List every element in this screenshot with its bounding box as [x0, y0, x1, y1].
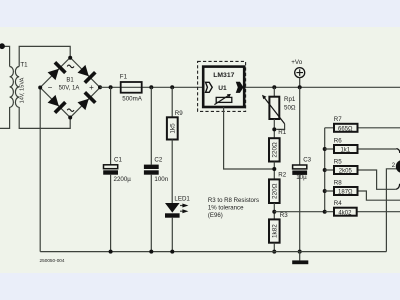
wire resistor bus [324, 128, 326, 212]
node LED ground [170, 250, 174, 254]
svg-text:LED1: LED1 [174, 195, 190, 202]
svg-text:2200µ: 2200µ [114, 176, 132, 183]
svg-text:(E96): (E96) [208, 212, 223, 219]
svg-text:R8: R8 [334, 179, 342, 186]
node R9 rail [170, 85, 174, 89]
resistor R7 [325, 127, 400, 129]
svg-text:+Vo: +Vo [291, 59, 302, 66]
svg-text:665Ω: 665Ω [338, 126, 353, 132]
svg-text:100n: 100n [154, 176, 168, 183]
svg-text:−: − [48, 83, 53, 92]
svg-text:14V, 15VA: 14V, 15VA [19, 77, 25, 103]
fuse F1 [121, 82, 142, 93]
U1 input arrow [206, 82, 213, 92]
node bus R6 [323, 147, 327, 151]
switch contact top [396, 149, 399, 153]
svg-text:250050-004: 250050-004 [40, 258, 65, 263]
node C3 ground [298, 250, 302, 254]
svg-text:U1: U1 [218, 85, 227, 92]
svg-text:R3 to R8 Resistors: R3 to R8 Resistors [208, 197, 259, 204]
node bridge top [68, 56, 72, 60]
svg-text:50V, 1A: 50V, 1A [59, 86, 80, 92]
potentiometer Rp1 [273, 87, 275, 96]
svg-text:R2: R2 [278, 171, 286, 178]
node Rp1 wiper [272, 127, 276, 131]
resistor R3 [269, 219, 280, 242]
svg-text:C2: C2 [154, 156, 162, 163]
U1 adjust icon [216, 97, 232, 102]
svg-text:R6: R6 [334, 137, 342, 144]
svg-text:T1: T1 [20, 62, 28, 69]
node C2 ground [149, 250, 153, 254]
resistor R8 [325, 191, 400, 200]
bridge diode D4 [78, 99, 89, 110]
capacitor C3 [299, 87, 301, 165]
transformer T1 secondary winding [15, 67, 19, 108]
svg-text:1% tolerance: 1% tolerance [208, 205, 244, 212]
svg-text:F1: F1 [120, 74, 128, 81]
node bridge left [38, 86, 42, 90]
node bus R8 [323, 189, 327, 193]
svg-text:B1: B1 [66, 78, 74, 84]
label ~ bottom [67, 109, 74, 112]
switch contact bottom [396, 184, 400, 190]
svg-text:2k05: 2k05 [339, 169, 353, 175]
svg-text:+: + [89, 83, 94, 92]
svg-text:R7: R7 [334, 116, 342, 123]
regulator U1 LM317 dashed outline [198, 61, 246, 111]
node bus R4 [323, 210, 327, 214]
node +Vo rail [298, 85, 302, 89]
terminal +Vo [295, 68, 305, 78]
label ~ top [67, 65, 74, 68]
resistor R9 [171, 87, 173, 117]
wire U1 adj to divider [224, 107, 275, 169]
top band [0, 0, 400, 27]
U1 output arrow [237, 82, 243, 92]
node C1 rail [109, 85, 113, 89]
regulator U1 LM317 body [203, 67, 244, 107]
node Rp1 rail [272, 85, 276, 89]
svg-text:1k5: 1k5 [170, 123, 177, 134]
svg-text:Rp1: Rp1 [284, 96, 296, 103]
svg-text:187Ω: 187Ω [338, 190, 353, 196]
svg-text:R9: R9 [175, 110, 183, 117]
capacitor C2 [150, 87, 152, 164]
wire primary top [0, 46, 10, 66]
svg-text:R3: R3 [280, 212, 288, 219]
wire divider to resistor bus [274, 211, 324, 213]
ground [299, 252, 301, 261]
svg-text:10µ: 10µ [296, 174, 307, 181]
svg-text:1k82: 1k82 [272, 224, 279, 238]
svg-text:220Ω: 220Ω [272, 183, 279, 199]
node R3 ground [272, 250, 276, 254]
node C1 ground [109, 250, 113, 254]
node mains input [0, 43, 5, 49]
wire bridge minus riser [39, 88, 41, 252]
wire positive rail right [244, 86, 400, 88]
bridge diode D1 [48, 69, 59, 80]
svg-text:LM317: LM317 [213, 72, 234, 79]
svg-text:50Ω: 50Ω [284, 104, 296, 111]
resistor R6 [325, 148, 397, 150]
rotary switch pole [396, 160, 400, 173]
bridge diode D3 [48, 95, 59, 106]
LED LED1 [165, 203, 180, 213]
capacitor C1 [110, 87, 112, 164]
svg-text:4k02: 4k02 [338, 210, 352, 216]
wire primary bottom [0, 107, 10, 128]
bridge diode D2 [78, 65, 89, 76]
svg-text:220Ω: 220Ω [272, 142, 279, 158]
node R2 R3 junction [272, 210, 276, 214]
wire secondary bottom to bridge [19, 107, 70, 128]
wire bottom rail [40, 251, 386, 253]
bridge rectifier B1 outline [40, 58, 100, 118]
node R1 R2 junction [272, 167, 276, 171]
wire secondary top to bridge [19, 46, 70, 66]
resistor R2 [269, 179, 280, 203]
node bridge right [98, 85, 102, 89]
svg-text:C1: C1 [114, 156, 122, 163]
resistor R1 [269, 138, 280, 161]
svg-text:R4: R4 [334, 200, 342, 207]
transformer T1 primary winding [10, 67, 14, 108]
resistor R4 [325, 211, 400, 213]
resistor R5 [325, 170, 396, 189]
svg-text:500mA: 500mA [122, 96, 142, 103]
wire ground riser to switch pole [386, 169, 396, 252]
bottom band [0, 273, 400, 300]
svg-text:C3: C3 [303, 157, 311, 164]
node bus R5 [323, 168, 327, 172]
node bridge bottom [68, 116, 72, 120]
svg-text:R1: R1 [278, 129, 286, 136]
node C2 rail [149, 85, 153, 89]
wire positive rail left [100, 86, 203, 88]
svg-text:1k1: 1k1 [340, 148, 350, 154]
svg-text:R5: R5 [334, 158, 342, 165]
